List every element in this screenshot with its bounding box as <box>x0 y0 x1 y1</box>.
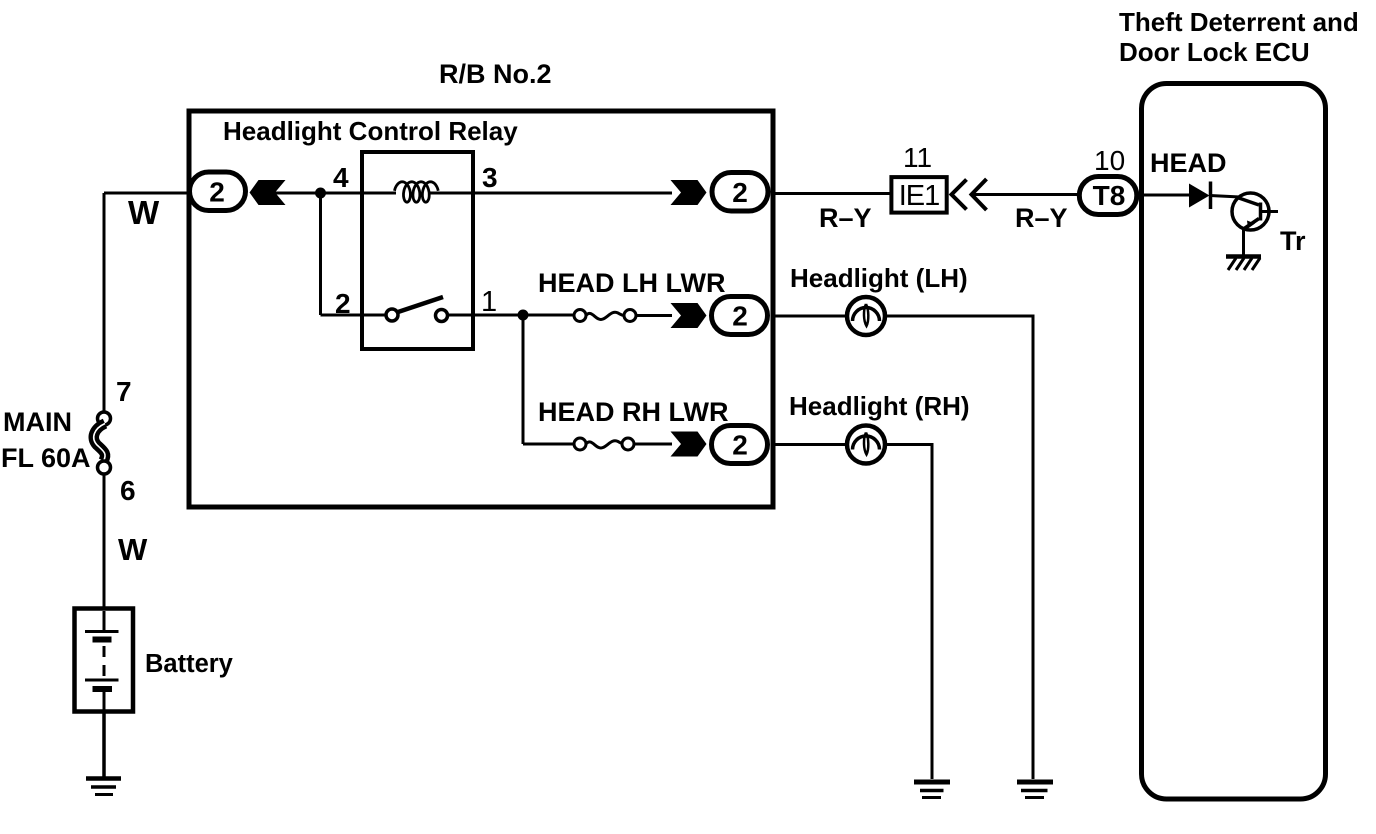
wire junction to fuse LH <box>523 314 574 317</box>
svg-text:HEAD RH LWR: HEAD RH LWR <box>538 397 729 427</box>
svg-text:4: 4 <box>333 162 349 193</box>
svg-text:11: 11 <box>903 142 932 173</box>
fuse HEAD LH LWR <box>574 310 636 322</box>
relay coil <box>395 182 439 202</box>
svg-text:W: W <box>118 532 148 567</box>
wire row3 to fuse <box>523 443 574 446</box>
ground (chassis, under transistor) <box>1226 257 1261 271</box>
svg-text:IE1: IE1 <box>899 180 940 212</box>
svg-text:FL 60A: FL 60A <box>1 443 91 473</box>
connector oval T8 <box>1079 177 1137 215</box>
wire fuse to arrow row3 <box>634 443 672 446</box>
fuse HEAD RH LWR <box>574 438 634 450</box>
wire bulb RH right then down <box>885 445 932 780</box>
arrow left (row1) <box>250 180 286 205</box>
junction block R/B No.2 box <box>189 111 773 507</box>
svg-text:1: 1 <box>481 286 497 318</box>
svg-text:R–Y: R–Y <box>1015 203 1068 233</box>
svg-text:HEAD: HEAD <box>1150 148 1227 178</box>
wire diode to transistor <box>1210 196 1240 198</box>
svg-text:Tr: Tr <box>1280 226 1306 256</box>
wire bulb LH right then down <box>885 316 1033 779</box>
relay switch contact left <box>386 309 398 321</box>
fusible link MAIN FL 60A <box>94 412 111 474</box>
wire chevrons to T8 <box>973 193 1080 196</box>
svg-text:Battery: Battery <box>145 650 234 678</box>
arrow right (row3) <box>671 432 707 457</box>
svg-text:2: 2 <box>732 177 748 208</box>
wire oval to bulb LH <box>771 315 848 318</box>
connector oval 2 (row1 left) <box>190 172 246 211</box>
wire coil to arrow (row1 right) <box>430 192 672 195</box>
relay box outline <box>362 152 473 349</box>
wire junction to coil <box>321 192 397 195</box>
wire transistor emitter down <box>1242 228 1245 256</box>
svg-text:2: 2 <box>335 288 351 319</box>
wire row1 to IE1 <box>771 192 890 195</box>
ECU box <box>1142 84 1326 800</box>
svg-text:7: 7 <box>116 376 132 407</box>
svg-text:R–Y: R–Y <box>819 203 872 233</box>
wire arrow to junction <box>275 192 321 195</box>
svg-text:Headlight Control Relay: Headlight Control Relay <box>223 116 518 146</box>
chevron arrow 2 <box>972 179 987 210</box>
transistor Q Tr <box>1232 193 1278 230</box>
diode <box>1189 184 1210 208</box>
wire row2 into relay <box>321 314 386 317</box>
node junction row1 <box>315 188 326 199</box>
svg-text:HEAD LH LWR: HEAD LH LWR <box>538 268 725 298</box>
ground (battery) <box>86 779 121 795</box>
svg-text:W: W <box>128 194 160 231</box>
arrow right (row2) <box>671 303 707 328</box>
svg-text:6: 6 <box>120 475 136 506</box>
svg-text:2: 2 <box>209 177 225 208</box>
svg-text:10: 10 <box>1094 145 1125 176</box>
relay switch blade <box>398 297 443 312</box>
relay switch contact right <box>436 310 448 322</box>
svg-text:2: 2 <box>732 301 748 332</box>
svg-text:MAIN: MAIN <box>3 407 72 437</box>
svg-text:3: 3 <box>482 162 498 193</box>
chevron arrow 1 <box>952 180 967 210</box>
wire left vertical bus x=104 <box>103 193 106 412</box>
svg-text:Door Lock ECU: Door Lock ECU <box>1119 37 1310 67</box>
svg-text:Headlight (LH): Headlight (LH) <box>790 263 968 293</box>
wire oval to bulb RH <box>771 443 848 446</box>
svg-text:Theft Deterrent and: Theft Deterrent and <box>1119 7 1359 37</box>
wire switch to junction row2 <box>448 314 523 317</box>
battery <box>75 609 134 712</box>
lamp Headlight (LH) <box>847 297 885 335</box>
wire fusible link to battery <box>103 474 106 610</box>
arrow right (row1) <box>671 180 707 205</box>
connector oval 2 (row1 right) <box>712 173 768 212</box>
connector IE1 box <box>891 177 946 213</box>
ground (RH) <box>914 782 950 798</box>
ground (LH) <box>1017 782 1053 798</box>
wire fuse to arrow row2 <box>636 314 672 317</box>
wire relay internal vertical (junction to row2) <box>319 193 322 315</box>
svg-text:2: 2 <box>732 430 748 461</box>
svg-text:R/B No.2: R/B No.2 <box>439 59 552 89</box>
wire row1 left (x=104 to oval) <box>104 192 192 195</box>
connector oval 2 (row3) <box>712 426 768 464</box>
wire battery to ground <box>102 711 106 778</box>
node junction row2 <box>518 310 529 321</box>
svg-text:T8: T8 <box>1093 180 1126 211</box>
connector oval 2 (row2) <box>712 297 768 335</box>
wire T8 to diode <box>1141 194 1190 197</box>
svg-text:Headlight (RH): Headlight (RH) <box>789 391 970 421</box>
wire junction row2 down to row3 <box>522 315 525 444</box>
lamp Headlight (RH) <box>847 426 885 464</box>
